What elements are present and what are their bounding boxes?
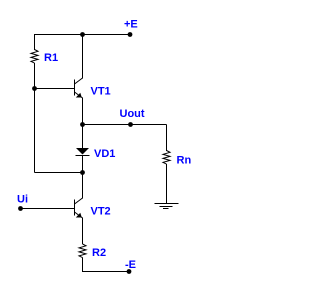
wire VT2 base [21, 208, 75, 210]
wire VT1 emitter [82, 98, 84, 126]
svg-text:+E: +E [124, 19, 138, 31]
svg-text:Rn: Rn [177, 155, 192, 167]
svg-text:-E: -E [125, 259, 136, 271]
wire diode anode [82, 125, 84, 149]
svg-text:Uout: Uout [120, 108, 145, 120]
wire Rn lower [166, 164, 168, 204]
resistor R1 [31, 50, 38, 64]
diode VD1 [76, 148, 90, 156]
wire VT1 collector [82, 34, 84, 79]
wire bottom [83, 258, 130, 272]
node Ui terminal [18, 206, 23, 211]
svg-text:R1: R1 [44, 52, 58, 64]
wire VT2 emitter [82, 218, 84, 245]
wire left rail lower [34, 63, 36, 173]
svg-text:R2: R2 [92, 247, 106, 259]
resistor Rn [163, 151, 170, 165]
transistor VT2 [75, 198, 83, 218]
wire left rail upper [34, 34, 36, 50]
ground [155, 204, 179, 209]
svg-text:VT2: VT2 [91, 206, 111, 218]
resistor R2 [79, 244, 86, 258]
node VT1 base junction [32, 86, 37, 91]
svg-text:Ui: Ui [17, 194, 28, 206]
wire Rn upper [166, 125, 168, 152]
wire top rail [34, 34, 130, 36]
svg-text:VD1: VD1 [94, 148, 115, 160]
node -E terminal [127, 269, 132, 274]
transistor VT1 [75, 78, 83, 98]
wire VT1 base [34, 88, 75, 90]
node Uout terminal [128, 122, 133, 127]
wire output [83, 124, 167, 126]
node +E terminal [128, 32, 133, 37]
svg-text:VT1: VT1 [91, 86, 111, 98]
node output junction [80, 122, 85, 127]
wire diode cathode [82, 156, 84, 199]
wire feedback [35, 172, 83, 174]
node feedback junction [80, 170, 85, 175]
node VT1 collector junction [80, 32, 85, 37]
